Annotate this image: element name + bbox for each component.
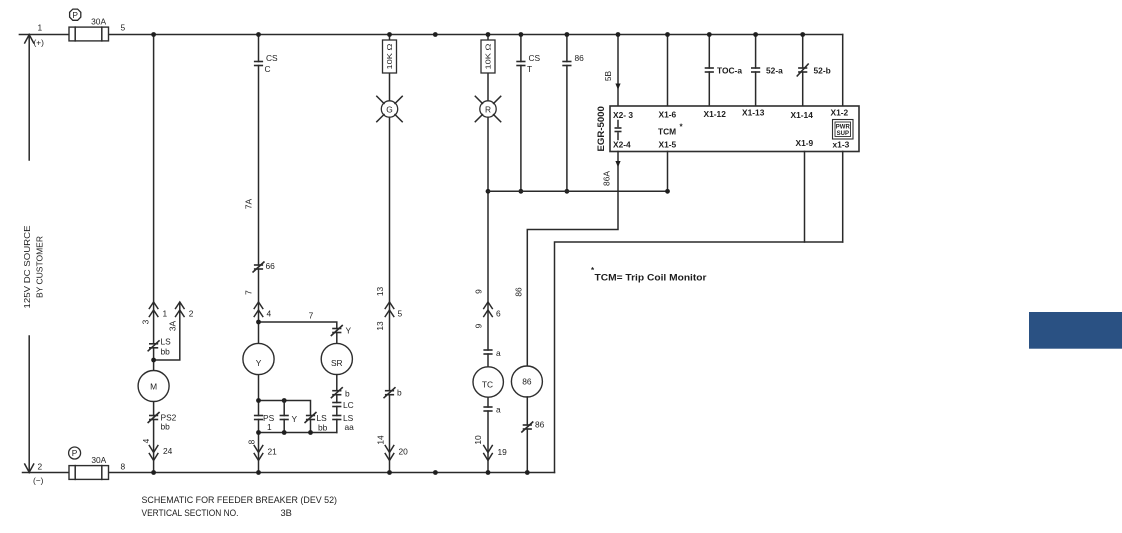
wire number 5B <box>603 70 613 81</box>
svg-text:VERTICAL SECTION NO.: VERTICAL SECTION NO. <box>142 508 239 518</box>
node 5 label <box>121 23 126 33</box>
wire number 9 lower <box>473 323 483 328</box>
svg-text:C: C <box>265 64 271 74</box>
wire R/TC column (x=488) <box>487 35 489 473</box>
wire X1-6 drop (x=667.5) <box>667 35 669 107</box>
terminal arrow 19 (down) <box>484 446 507 461</box>
svg-text:LC: LC <box>343 400 354 410</box>
wire 86 contact column (x=566.9) <box>566 35 568 192</box>
wire number 4 <box>141 438 151 443</box>
junction X1-5 at bus 191 <box>665 189 670 194</box>
svg-text:20: 20 <box>399 447 409 457</box>
pin X1-9 <box>796 138 814 148</box>
contact 52-a <box>751 66 783 76</box>
node 2 label <box>33 462 44 486</box>
svg-text:66: 66 <box>266 261 276 271</box>
svg-text:21: 21 <box>268 447 278 457</box>
wire DC source negative lead with down arrow <box>25 336 34 473</box>
wire Y column (x=258.5) <box>258 35 260 473</box>
svg-text:86: 86 <box>535 420 545 430</box>
contact 52-b (NC) <box>797 64 831 77</box>
terminal arrow 24 (down) <box>149 446 172 461</box>
svg-text:19: 19 <box>498 447 508 457</box>
svg-text:a: a <box>496 348 501 358</box>
junction X1-6 top <box>665 32 670 37</box>
coil TC <box>473 367 503 397</box>
wire X1-9 drop <box>804 152 806 243</box>
svg-text:3B: 3B <box>281 508 292 518</box>
node 8 label <box>121 462 126 472</box>
svg-text:10K Ω: 10K Ω <box>385 43 394 69</box>
svg-text:SCHEMATIC FOR FEEDER BREAKER (: SCHEMATIC FOR FEEDER BREAKER (DEV 52) <box>142 495 338 505</box>
svg-text:SR: SR <box>331 358 343 368</box>
svg-text:X1-2: X1-2 <box>831 108 849 118</box>
svg-text:(+): (+) <box>34 38 45 48</box>
svg-text:24: 24 <box>163 446 173 456</box>
wire number 13 lower <box>375 321 385 331</box>
wire G column (x=389.5) <box>389 35 391 473</box>
svg-text:PWR: PWR <box>836 124 851 130</box>
arrowhead 86A <box>615 161 620 167</box>
fuse F1 value 30A <box>91 16 106 26</box>
wire X2-3 drop (wire 5B, x=618) <box>617 35 619 107</box>
svg-text:EGR-5000: EGR-5000 <box>596 106 607 151</box>
svg-text:TCM= Trip Coil Monitor: TCM= Trip Coil Monitor <box>595 273 707 283</box>
wire SR branch lower <box>336 375 338 433</box>
svg-text:b: b <box>345 389 350 399</box>
wire number 10 <box>473 435 483 445</box>
junction Y column bottom <box>256 470 261 475</box>
note TCM= Trip Coil Monitor <box>591 266 707 283</box>
pin X1-6 <box>659 110 677 120</box>
label 125V DC SOURCE BY CUSTOMER <box>22 225 45 308</box>
svg-text:LS: LS <box>161 337 172 347</box>
svg-text:P: P <box>72 10 78 20</box>
svg-text:Y: Y <box>292 414 298 424</box>
wire bus 191 <box>488 190 668 192</box>
svg-text:X1-12: X1-12 <box>704 109 727 119</box>
power supply PWR SUP box <box>833 120 854 140</box>
pin X2-4 <box>613 140 631 150</box>
svg-text:6: 6 <box>496 309 501 319</box>
svg-text:30A: 30A <box>91 16 106 26</box>
contact Y parallel <box>280 401 298 433</box>
contact TOC-a <box>705 66 743 76</box>
svg-text:13: 13 <box>375 321 385 331</box>
svg-text:TOC-a: TOC-a <box>717 66 742 76</box>
svg-text:X2- 3: X2- 3 <box>613 110 633 120</box>
coil 86 <box>511 366 542 397</box>
pin X2-3 <box>613 110 633 120</box>
svg-text:86: 86 <box>513 287 523 297</box>
pin X1-2 <box>831 108 849 118</box>
pin X1-5 <box>659 140 677 150</box>
fuse F2 P symbol <box>69 447 81 459</box>
terminal arrow 4 (up) <box>254 302 271 319</box>
junction X1-12 top <box>707 32 712 37</box>
label EGR-5000 <box>596 106 607 151</box>
terminal arrow 21 (down) <box>254 446 277 461</box>
svg-text:a: a <box>496 405 501 415</box>
svg-text:86A: 86A <box>602 171 612 186</box>
lamp G <box>377 96 402 121</box>
junction wire7 leaves Y column <box>256 320 261 325</box>
wire M column (x=153.6) <box>153 35 155 473</box>
wire X1-14 drop (x=802.7) <box>802 35 804 107</box>
contact LS/aa <box>332 413 354 432</box>
svg-text:bb: bb <box>318 423 328 433</box>
svg-text:5: 5 <box>121 23 126 33</box>
svg-text:7: 7 <box>309 311 314 321</box>
wire top bus (wire 5) <box>19 34 842 36</box>
svg-text:CS: CS <box>529 53 541 63</box>
svg-text:8: 8 <box>121 462 126 472</box>
junction X1-14 top <box>800 32 805 37</box>
terminal arrow 1 (up) <box>149 302 167 319</box>
wire X1-2 drop (x=842.7) <box>842 35 844 107</box>
wire number 9 upper <box>473 289 483 294</box>
lamp R <box>475 96 500 121</box>
pin x1-3 <box>833 140 850 150</box>
junction R column at bus 191 <box>486 189 491 194</box>
resistor 10K ohm (R) <box>481 40 495 73</box>
wire 7 horizontal branch to SR <box>259 311 337 329</box>
junction M column bottom <box>151 470 156 475</box>
relay EGR-5000 box <box>610 106 859 152</box>
svg-text:aa: aa <box>345 422 355 432</box>
svg-text:LS: LS <box>317 413 328 423</box>
junction branch joins M column <box>151 358 156 363</box>
junction stray bottom bus <box>433 470 438 475</box>
svg-text:7A: 7A <box>244 198 254 209</box>
svg-text:G: G <box>386 104 393 114</box>
wire number 7 <box>244 290 254 295</box>
contact LS/bb parallel (NC) <box>305 412 328 433</box>
coil Y <box>243 343 274 374</box>
contact 86 top <box>562 53 584 66</box>
wire number 8 <box>246 439 256 444</box>
svg-text:86: 86 <box>575 53 585 63</box>
title VERTICAL SECTION NO. 3B <box>142 508 292 518</box>
svg-text:bb: bb <box>161 347 171 357</box>
junction X1-13 top <box>753 32 758 37</box>
svg-text:5: 5 <box>398 309 403 319</box>
svg-text:8: 8 <box>246 439 256 444</box>
contact CS/C <box>254 53 278 74</box>
fuse F2 bottom 30A <box>69 466 109 480</box>
junction stray top bus <box>433 32 438 37</box>
pin X1-12 <box>704 109 727 119</box>
wire DC source positive lead with up arrow <box>25 35 34 161</box>
svg-text:3: 3 <box>141 319 151 324</box>
contact LS/bb (NC) <box>148 337 172 357</box>
svg-text:5B: 5B <box>603 70 613 81</box>
pin X1-13 <box>742 108 765 118</box>
svg-text:b: b <box>397 388 402 398</box>
coil SR <box>321 333 352 375</box>
svg-text:4: 4 <box>267 309 272 319</box>
junction R column top <box>486 32 491 37</box>
contact b (NC) G column <box>384 387 403 398</box>
svg-text:9: 9 <box>473 289 483 294</box>
blue rectangle <box>1029 312 1122 349</box>
junction Y column top <box>256 32 261 37</box>
svg-text:X1-13: X1-13 <box>742 108 765 118</box>
terminal arrow 20 (down) <box>385 446 408 461</box>
fuse F1 top 30A <box>69 27 109 41</box>
svg-text:4: 4 <box>141 438 151 443</box>
svg-text:bb: bb <box>161 422 171 432</box>
svg-text:X2-4: X2-4 <box>613 140 631 150</box>
wire X1-13 drop (x=755.6) <box>755 35 757 107</box>
parallel rail top <box>259 401 311 416</box>
svg-text:10: 10 <box>473 435 483 445</box>
wire number 13 upper <box>375 287 385 297</box>
wire number 3 <box>141 319 151 324</box>
svg-text:125V DC SOURCE: 125V DC SOURCE <box>22 225 32 308</box>
junction G column top <box>387 32 392 37</box>
svg-text:T: T <box>527 64 532 74</box>
svg-text:52-b: 52-b <box>814 66 831 76</box>
svg-text:x1-3: x1-3 <box>833 140 850 150</box>
arrowhead 5B <box>615 84 620 90</box>
wire CS/T column (x=520.9) <box>520 35 522 192</box>
svg-text:BY CUSTOMER: BY CUSTOMER <box>35 236 45 298</box>
wire X1-12 drop (x=709.3) <box>708 35 710 107</box>
svg-text:1: 1 <box>163 309 168 319</box>
contact LC <box>332 400 354 410</box>
junction M column top <box>151 32 156 37</box>
terminal arrow 2 branch (wire 3A, x=179.8) <box>154 302 194 360</box>
svg-text:X1-14: X1-14 <box>791 110 814 120</box>
wire number 86A <box>602 171 612 186</box>
contact a lower (TC) <box>483 405 501 415</box>
svg-text:52-a: 52-a <box>766 66 783 76</box>
wire X2-4 drop (wire 86A) <box>527 152 618 367</box>
svg-text:(−): (−) <box>33 476 44 486</box>
contact Y (NC) on SR branch <box>331 325 352 336</box>
wire 86 coil to contact <box>526 397 528 473</box>
junction 86 contact at bus 191 <box>565 189 570 194</box>
wire number 14 <box>375 435 385 445</box>
junction CS/T at bus 191 <box>519 189 524 194</box>
svg-text:1: 1 <box>38 23 43 33</box>
motor coil M <box>138 371 169 402</box>
svg-text:7: 7 <box>244 290 254 295</box>
contact a upper (TC) <box>483 348 501 358</box>
parallel rail bottom <box>259 432 337 434</box>
svg-text:R: R <box>485 104 491 114</box>
fuse F2 value 30A <box>91 455 106 465</box>
svg-text:3A: 3A <box>167 320 177 331</box>
junction G column bottom <box>387 470 392 475</box>
node 1 label <box>34 23 45 48</box>
svg-text:2: 2 <box>38 462 43 472</box>
internal TCM capacitor <box>615 121 622 140</box>
junction 86 contact top <box>565 32 570 37</box>
svg-text:2: 2 <box>189 309 194 319</box>
svg-text:86: 86 <box>522 377 532 387</box>
svg-text:P: P <box>72 448 78 458</box>
contact CS/T <box>516 53 540 74</box>
terminal arrow 5 (up) <box>385 302 402 319</box>
wire number 7A <box>244 198 254 209</box>
contact b (NC) on SR branch <box>331 387 350 398</box>
junction 86 column bottom <box>525 470 530 475</box>
junction CS/T top <box>519 32 524 37</box>
svg-text:14: 14 <box>375 435 385 445</box>
svg-text:9: 9 <box>473 323 483 328</box>
resistor 10K ohm (G) <box>383 40 397 73</box>
svg-text:Y: Y <box>256 358 262 368</box>
contact 86 lower (NC) <box>521 420 544 433</box>
svg-text:TC: TC <box>482 380 493 390</box>
contact PS2/bb (NC) <box>148 412 177 432</box>
svg-text:M: M <box>150 381 157 391</box>
svg-text:X1-5: X1-5 <box>659 140 677 150</box>
wire number 86 (coil branch) <box>513 287 523 297</box>
svg-text:13: 13 <box>375 287 385 297</box>
svg-text:1: 1 <box>267 422 272 432</box>
svg-text:10K Ω: 10K Ω <box>484 43 493 69</box>
title SCHEMATIC FOR FEEDER BREAKER <box>142 495 338 505</box>
wire X1-5 drop <box>667 152 669 192</box>
label TCM asterisk <box>658 123 684 137</box>
fuse F1 P symbol <box>70 9 81 20</box>
wire horizontal 242 return <box>555 242 843 473</box>
wire x1-3 drop <box>842 152 844 243</box>
contact PS/1 <box>254 413 275 432</box>
svg-text:30A: 30A <box>91 455 106 465</box>
pin X1-14 <box>791 110 814 120</box>
terminal arrow 6 (up) <box>484 302 501 319</box>
svg-text:X1-9: X1-9 <box>796 138 814 148</box>
svg-text:TCM: TCM <box>658 127 676 137</box>
svg-text:X1-6: X1-6 <box>659 110 677 120</box>
svg-text:SUP: SUP <box>837 131 849 137</box>
wire bottom bus (wire 8) <box>23 472 555 474</box>
wire number 3A <box>167 320 177 331</box>
contact 66 (NC) <box>253 261 276 273</box>
svg-text:Y: Y <box>346 326 352 336</box>
junction X2-3 top <box>616 32 621 37</box>
svg-text:CS: CS <box>266 53 278 63</box>
junction TC column bottom <box>486 470 491 475</box>
